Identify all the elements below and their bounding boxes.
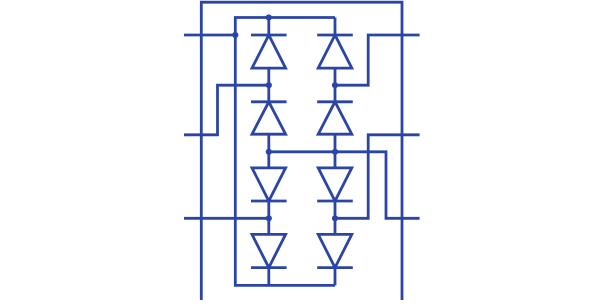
diode D4 left (cathode down) xyxy=(251,234,287,267)
wire inner loop (top bus, left bus, bottom bus) xyxy=(235,18,335,286)
diode D1 right (cathode up) xyxy=(317,35,353,68)
diode D1 left (cathode up) xyxy=(251,35,287,68)
junction D1/D2 left xyxy=(266,82,272,88)
wire mid bus D2/D3 junction to lead 3 right xyxy=(269,152,420,219)
wire lead 1 right from node between D1/D2 right xyxy=(335,35,420,85)
wire left column top tap xyxy=(267,18,270,36)
junction top tap left column xyxy=(266,14,272,20)
junction lead 1 left on inner bus xyxy=(232,32,238,38)
wire right column D3-D4 link xyxy=(334,201,337,234)
wire lead 2 left with riser to node between D1/D2 left xyxy=(184,85,269,135)
junction D1/D2 right xyxy=(332,82,338,88)
wire lead 1 left xyxy=(184,34,235,37)
diode D2 right (cathode up) xyxy=(317,102,353,134)
wire lead 3 left xyxy=(184,217,269,220)
junction D3/D4 left xyxy=(266,215,272,221)
diode D2 left (cathode up) xyxy=(251,102,287,134)
wire left column bottom xyxy=(267,268,270,286)
wire right column bottom xyxy=(334,268,337,286)
junction D2/D3 left xyxy=(266,149,272,155)
wire right column top xyxy=(334,18,337,36)
wire left column D3-D4 link xyxy=(267,201,270,234)
wire left column D1-D2 link xyxy=(267,68,270,102)
junction D3/D4 right xyxy=(332,215,338,221)
diode D4 right (cathode down) xyxy=(317,234,353,267)
wire lead 2 right from node between D3/D4 right xyxy=(335,135,420,219)
diode D3 right (cathode down) xyxy=(317,168,353,201)
junction D2/D3 right xyxy=(332,149,338,155)
wire right column D1-D2 link xyxy=(334,68,337,102)
wire outer frame (top rail and side rails) xyxy=(201,2,402,300)
wire right column D2-D3 link xyxy=(334,134,337,168)
diode D3 left (cathode down) xyxy=(251,168,287,201)
wire left column D2-D3 link xyxy=(267,134,270,168)
